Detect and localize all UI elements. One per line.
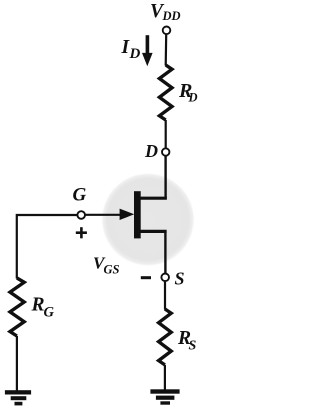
wire source of Q1 to node S bbox=[164, 230, 166, 273]
transistor Q1 gate arrow bbox=[120, 209, 135, 220]
wire RS to ground bbox=[164, 365, 166, 391]
ground (gate side) bbox=[5, 390, 31, 405]
wire node G to RG (left rail) bbox=[17, 215, 78, 279]
wire VDD terminal to RD bbox=[165, 35, 168, 66]
node S (open circle) bbox=[161, 274, 169, 282]
resistor RG (zigzag) bbox=[10, 278, 24, 336]
resistor RS (zigzag) bbox=[159, 309, 172, 365]
svg-text:DD: DD bbox=[162, 9, 181, 23]
polarity plus sign bbox=[76, 227, 87, 238]
wire node S to RS bbox=[164, 281, 166, 310]
transistor highlight circle (shaded background behind Q1) bbox=[102, 173, 195, 266]
wire gate lead from node G to Q1 bbox=[86, 214, 123, 216]
svg-text:D: D bbox=[144, 141, 158, 161]
label RD bbox=[178, 80, 198, 105]
node D (open circle) bbox=[162, 148, 169, 155]
svg-text:S: S bbox=[189, 338, 197, 353]
svg-text:D: D bbox=[188, 91, 198, 105]
wire node D to drain of Q1 bbox=[164, 156, 166, 200]
label ID bbox=[121, 37, 141, 62]
label VDD bbox=[150, 1, 181, 23]
svg-text:G: G bbox=[73, 185, 87, 206]
transistor Q1 channel bar bbox=[134, 191, 141, 238]
drain lead of Q1 bbox=[140, 197, 167, 200]
source lead of Q1 bbox=[140, 230, 167, 233]
current arrow ID bbox=[142, 35, 153, 66]
label VGS bbox=[93, 253, 120, 276]
wire RD to node D bbox=[165, 120, 167, 148]
svg-text:R: R bbox=[31, 295, 45, 316]
wire RG to ground bbox=[16, 336, 18, 391]
node G (open circle) bbox=[77, 211, 85, 219]
resistor RD (zigzag) bbox=[159, 65, 172, 120]
svg-text:S: S bbox=[175, 269, 185, 289]
label RS bbox=[177, 328, 197, 353]
ground (source side) bbox=[150, 389, 179, 404]
polarity minus sign bbox=[141, 276, 151, 279]
svg-text:G: G bbox=[44, 304, 55, 320]
label RG bbox=[31, 295, 55, 321]
supply terminal VDD (open circle) bbox=[163, 27, 171, 35]
svg-text:D: D bbox=[129, 46, 141, 62]
svg-text:GS: GS bbox=[104, 262, 120, 276]
